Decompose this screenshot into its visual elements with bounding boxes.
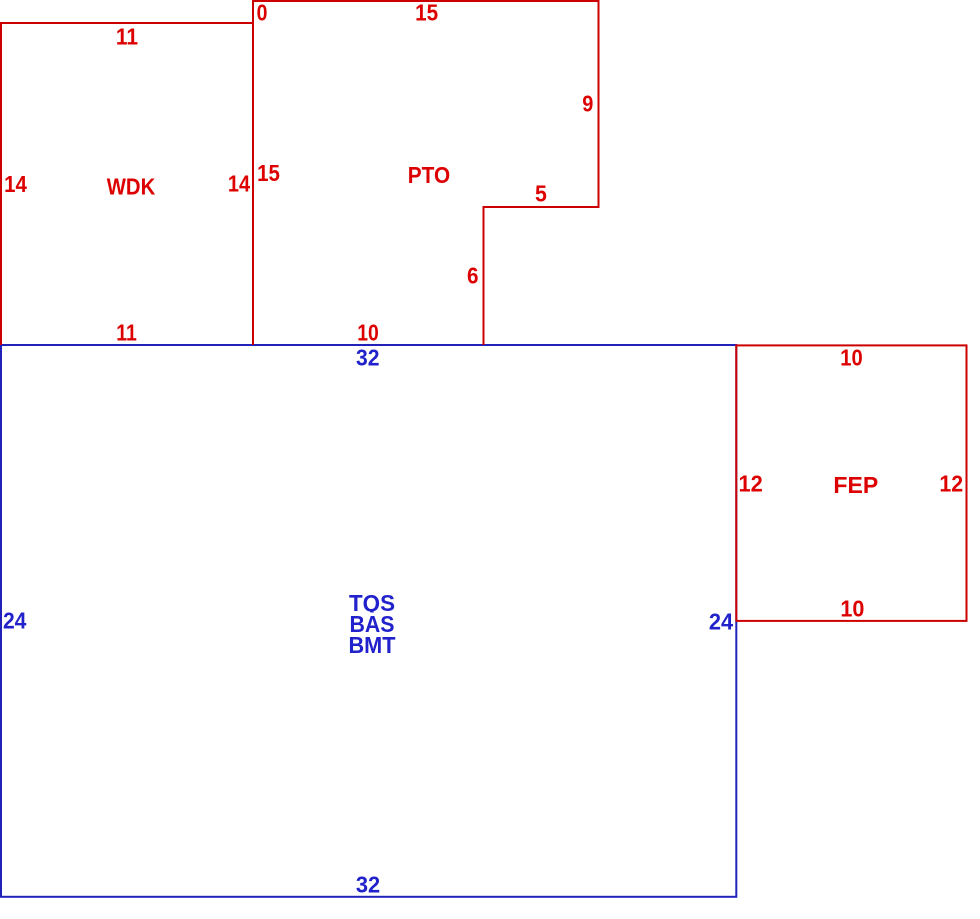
svg-text:10: 10 bbox=[840, 595, 864, 621]
svg-text:32: 32 bbox=[356, 872, 380, 898]
svg-text:14: 14 bbox=[228, 171, 250, 197]
svg-text:12: 12 bbox=[738, 471, 762, 497]
svg-text:12: 12 bbox=[939, 471, 963, 497]
svg-text:5: 5 bbox=[535, 181, 547, 207]
svg-text:0: 0 bbox=[257, 0, 268, 26]
svg-text:24: 24 bbox=[3, 608, 27, 634]
svg-text:24: 24 bbox=[709, 609, 733, 635]
area outline WDK (red, open at bottom: shares blue top edge) bbox=[1, 23, 253, 345]
svg-text:BMT: BMT bbox=[349, 632, 396, 658]
svg-text:PTO: PTO bbox=[408, 162, 450, 188]
svg-text:11: 11 bbox=[116, 24, 138, 50]
svg-text:15: 15 bbox=[257, 160, 280, 186]
svg-text:9: 9 bbox=[582, 91, 593, 117]
svg-text:10: 10 bbox=[840, 345, 862, 371]
svg-text:15: 15 bbox=[415, 0, 438, 26]
svg-text:10: 10 bbox=[357, 320, 379, 346]
svg-text:6: 6 bbox=[467, 262, 479, 288]
svg-text:WDK: WDK bbox=[107, 174, 156, 200]
svg-text:32: 32 bbox=[356, 344, 380, 370]
area outline PTO (red polygon, open at bottom) bbox=[253, 1, 599, 345]
area outline FEP (red rectangle) bbox=[736, 345, 966, 621]
svg-text:14: 14 bbox=[4, 171, 27, 197]
svg-text:FEP: FEP bbox=[833, 472, 878, 498]
area outline TQS/BAS/BMT (blue rectangle) bbox=[1, 345, 736, 897]
svg-text:11: 11 bbox=[116, 320, 137, 346]
